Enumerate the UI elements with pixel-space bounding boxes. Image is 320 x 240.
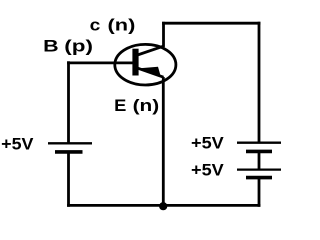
label c (n) collector	[90, 16, 136, 35]
svg-text:B: B	[43, 36, 59, 55]
wire top (collector to right battery)	[162, 22, 260, 25]
svg-text:+5V: +5V	[191, 134, 224, 153]
label +5V left battery	[1, 135, 34, 154]
wire right upper	[258, 22, 261, 143]
wire right lower	[258, 178, 261, 207]
label B (p) base	[43, 36, 93, 55]
svg-text:E: E	[114, 96, 126, 115]
svg-text:(n): (n)	[108, 16, 136, 35]
label E (n) emitter	[114, 96, 159, 115]
junction dot	[159, 202, 167, 210]
svg-text:+5V: +5V	[1, 135, 34, 154]
transistor Q1 (NPN)	[115, 44, 176, 85]
battery V2 cell 1 (+5V)	[237, 143, 281, 152]
label +5V right battery cell 1	[191, 134, 224, 153]
battery V3 cell 2 (+5V)	[237, 170, 281, 178]
wire collector vertical	[162, 22, 165, 47]
wire emitter vertical	[162, 77, 165, 207]
battery V1 (+5V)	[48, 143, 92, 152]
wire left upper	[67, 61, 70, 144]
label +5V right battery cell 2	[191, 160, 224, 179]
wire left lower	[67, 152, 70, 207]
svg-text:(p): (p)	[64, 36, 93, 55]
svg-text:c: c	[90, 16, 101, 35]
wire base	[67, 62, 134, 65]
wire bottom	[67, 204, 260, 207]
wire right middle (between cells)	[258, 151, 261, 169]
svg-text:+5V: +5V	[191, 160, 224, 179]
svg-text:(n): (n)	[133, 96, 160, 115]
